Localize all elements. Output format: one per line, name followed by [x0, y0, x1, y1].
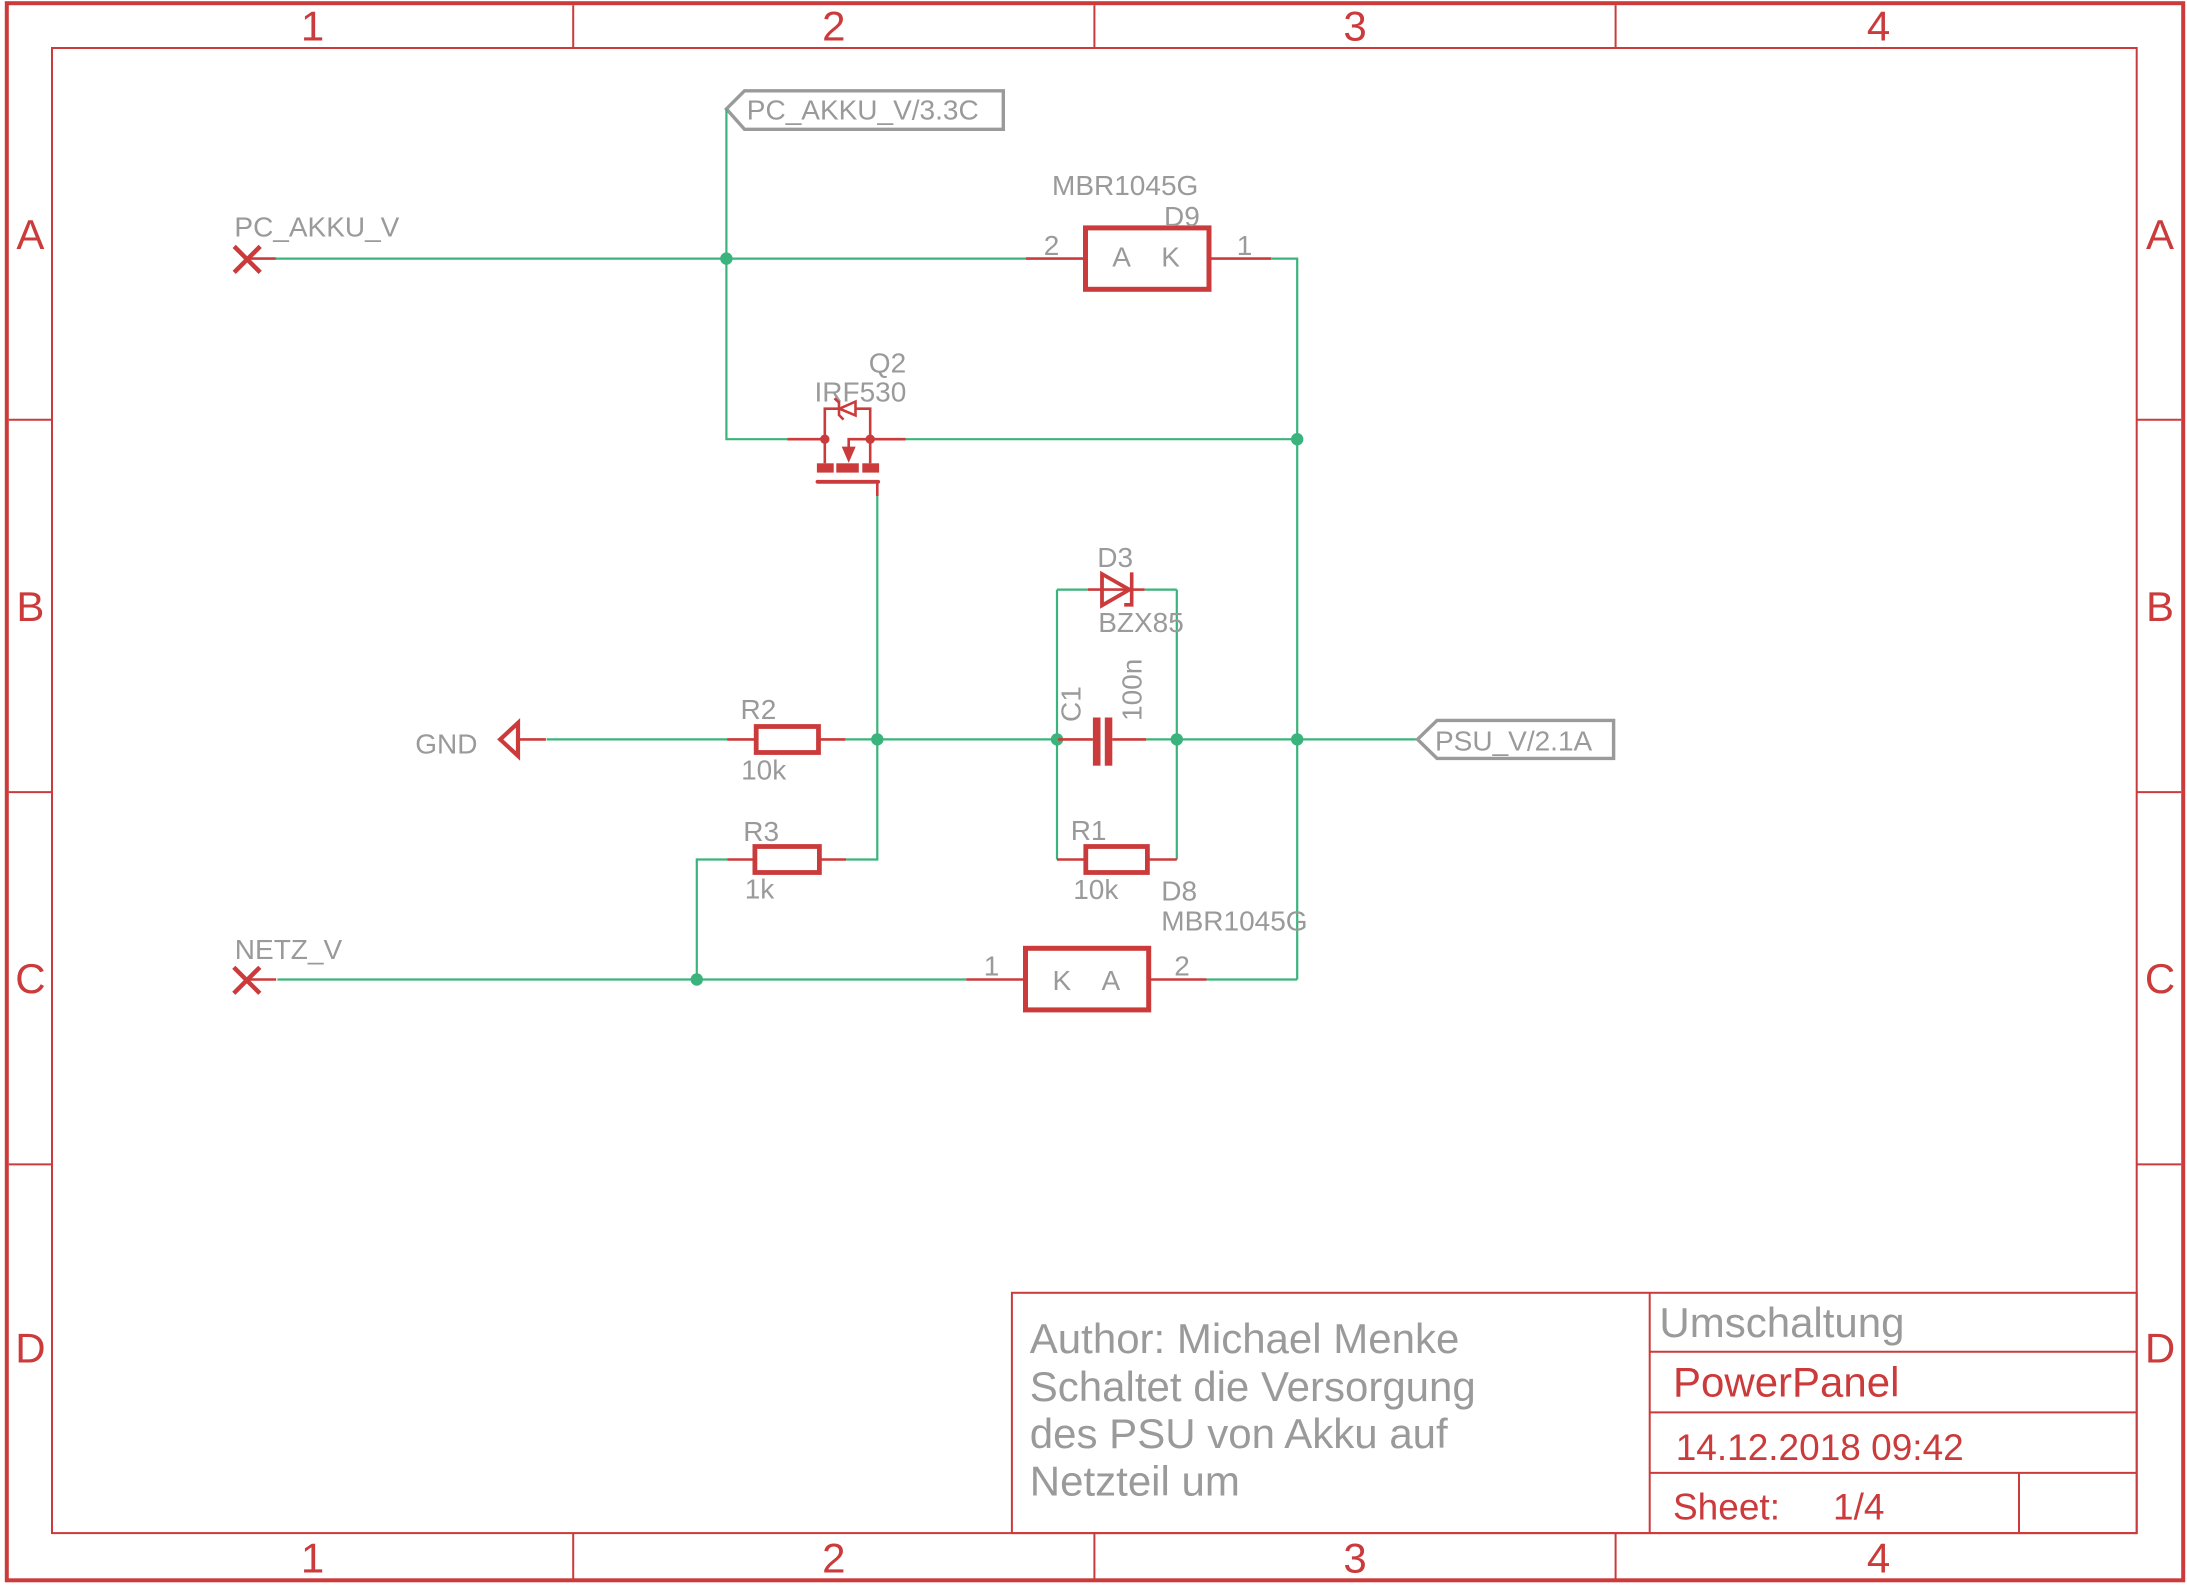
wire gate column down to R3 [846, 739, 877, 859]
capacitor C1 left plate [1093, 718, 1101, 766]
capacitor C1 left pin [1057, 738, 1093, 741]
svg-text:1: 1 [984, 951, 1000, 982]
transistor Q2 drain dot [866, 435, 875, 444]
title block row divider 1 [1650, 1351, 2137, 1353]
svg-text:C: C [2145, 955, 2175, 1002]
transistor Q2 drain pin [870, 438, 905, 441]
svg-text:Netzteil um: Netzteil um [1030, 1457, 1240, 1504]
svg-text:4: 4 [1867, 3, 1890, 50]
node junction right bus at Q2 row [1291, 433, 1303, 445]
transistor Q2 gate lead [876, 482, 879, 496]
frame left row dividers [9, 420, 52, 1165]
diode D9 pin 1 stub [1209, 257, 1271, 260]
transistor Q2 body connection to source [849, 439, 871, 448]
diode D8 pin 2 stub [1149, 978, 1207, 981]
zener D3 cathode bar [1124, 572, 1132, 604]
capacitor C1 right pin [1112, 738, 1146, 741]
wire C1 right to flag [1146, 738, 1417, 740]
svg-text:D9: D9 [1164, 201, 1200, 232]
net flag PSU_V/2.1A [1418, 720, 1614, 758]
net stub X PC_AKKU_V [234, 246, 260, 272]
wire D9 to right bus [1271, 259, 1297, 980]
transistor Q2 body pad [836, 463, 859, 472]
resistor R1 right pin [1147, 858, 1176, 861]
svg-text:1/4: 1/4 [1833, 1487, 1884, 1528]
diode D9 body [1086, 228, 1210, 289]
svg-text:PowerPanel: PowerPanel [1673, 1359, 1899, 1406]
svg-text:C: C [15, 955, 45, 1002]
svg-text:NETZ_V: NETZ_V [235, 934, 343, 965]
svg-text:A: A [1102, 965, 1121, 996]
svg-text:K: K [1053, 965, 1072, 996]
ground arrow [500, 723, 518, 756]
svg-text:R2: R2 [741, 694, 777, 725]
node junction main row center [871, 733, 883, 745]
svg-text:PSU_V/2.1A: PSU_V/2.1A [1435, 725, 1593, 756]
svg-text:D8: D8 [1161, 876, 1197, 907]
wire R2 to center junction [845, 738, 1060, 740]
resistor R2 body [756, 727, 818, 753]
transistor Q2 source riser [823, 439, 826, 463]
title block outline [1012, 1293, 2137, 1533]
svg-text:BZX85: BZX85 [1098, 607, 1184, 638]
diode D8 pin 1 stub [966, 978, 1025, 981]
resistor R1 body [1086, 847, 1148, 873]
wire GND to R2 [547, 738, 728, 740]
svg-text:4: 4 [1867, 1535, 1890, 1582]
svg-text:10k: 10k [741, 754, 787, 785]
transistor Q2 source dot [820, 435, 829, 444]
transistor Q2 body diode loop [825, 409, 870, 440]
node junction PC_AKKU_V [720, 252, 732, 264]
wire D3 row left [1057, 588, 1088, 590]
svg-text:A: A [1112, 241, 1131, 272]
frame bottom column dividers [573, 1533, 1615, 1579]
transistor Q2 source pin [787, 438, 825, 441]
wire R3 to NETZ junction [697, 860, 728, 980]
transistor Q2 body diode triangle [840, 402, 856, 416]
transistor Q2 drain pad [862, 463, 879, 472]
wire D8 to right bus [1207, 978, 1298, 980]
svg-text:1: 1 [301, 1535, 324, 1582]
transistor Q2 bulk arrow [842, 447, 856, 463]
svg-text:MBR1045G: MBR1045G [1052, 170, 1198, 201]
svg-text:14.12.2018 09:42: 14.12.2018 09:42 [1676, 1427, 1964, 1468]
wire PC_AKKU_V row [275, 258, 1026, 260]
frame right row dividers [2137, 420, 2182, 1165]
svg-text:A: A [16, 211, 44, 258]
transistor Q2 drain riser [869, 439, 872, 463]
svg-text:D3: D3 [1097, 542, 1133, 573]
resistor R3 body [755, 847, 820, 873]
transistor Q2 body diode zener cathode [835, 398, 844, 419]
frame top column dividers [573, 5, 1615, 48]
wire NETZ_V row [277, 978, 966, 980]
wire D3 row right [1145, 588, 1177, 590]
svg-text:B: B [16, 583, 44, 630]
svg-text:PC_AKKU_V: PC_AKKU_V [234, 212, 399, 243]
resistor R2 left pin [727, 738, 756, 741]
capacitor C1 right plate [1105, 718, 1113, 766]
svg-text:Author: Michael Menke: Author: Michael Menke [1030, 1315, 1460, 1362]
node junction C1 right [1171, 733, 1183, 745]
zener D3 triangle [1102, 574, 1129, 605]
diode D9 pin 2 stub [1026, 257, 1086, 260]
node junction right bus at main row [1291, 733, 1303, 745]
svg-text:3: 3 [1343, 1535, 1366, 1582]
svg-text:1k: 1k [745, 873, 776, 904]
svg-text:Umschaltung: Umschaltung [1659, 1299, 1904, 1346]
zener D3 left pin [1088, 588, 1130, 591]
svg-text:100n: 100n [1117, 659, 1148, 721]
resistor R1 left pin [1057, 858, 1086, 861]
ground pin stub [518, 738, 546, 741]
svg-text:A: A [2146, 211, 2174, 258]
svg-text:R1: R1 [1071, 815, 1107, 846]
svg-text:des PSU von Akku auf: des PSU von Akku auf [1030, 1410, 1448, 1457]
net flag PC_AKKU_V/3.3C [726, 91, 1003, 130]
title block row divider 2 [1650, 1411, 2137, 1413]
svg-text:D: D [15, 1325, 45, 1372]
svg-text:Q2: Q2 [869, 348, 906, 379]
svg-text:B: B [2146, 583, 2174, 630]
pin stub NETZ_V [247, 978, 276, 981]
resistor R3 right pin [819, 858, 846, 861]
svg-text:C1: C1 [1056, 686, 1087, 722]
node junction C1 left [1051, 733, 1063, 745]
svg-text:MBR1045G: MBR1045G [1161, 906, 1307, 937]
wire flag drop to PC_AKKU_V junction [725, 109, 727, 259]
transistor Q2 source pad [817, 463, 834, 472]
wire PC_AKKU_V junction down to Q2 row [726, 259, 787, 440]
transistor Q2 gate bar [818, 480, 879, 484]
net stub X NETZ_V [234, 967, 260, 993]
svg-text:2: 2 [822, 1535, 845, 1582]
svg-text:1: 1 [1237, 230, 1253, 261]
node junction NETZ R3 [691, 973, 703, 985]
title block vertical divider [1649, 1293, 1651, 1533]
zener D3 right pin [1134, 588, 1145, 591]
diode D8 body [1026, 948, 1149, 1010]
wire D3 branch right vertical [1176, 590, 1178, 860]
title block sheet cell divider [2018, 1473, 2020, 1533]
title block row divider 3 [1650, 1472, 2137, 1474]
svg-text:GND: GND [415, 728, 477, 759]
svg-text:K: K [1161, 241, 1180, 272]
svg-text:PC_AKKU_V/3.3C: PC_AKKU_V/3.3C [747, 94, 979, 125]
wire Q2 drain to right bus [906, 438, 1298, 440]
resistor R2 right pin [819, 738, 846, 741]
svg-text:Sheet:: Sheet: [1673, 1487, 1780, 1528]
svg-text:3: 3 [1343, 3, 1366, 50]
pin stub PC_AKKU_V [247, 257, 276, 260]
svg-text:2: 2 [1174, 951, 1190, 982]
resistor R3 left pin [728, 858, 755, 861]
svg-text:10k: 10k [1073, 874, 1119, 905]
svg-text:R3: R3 [743, 816, 779, 847]
svg-text:2: 2 [822, 3, 845, 50]
wire Q2 gate down to main row [876, 496, 878, 739]
svg-text:1: 1 [301, 3, 324, 50]
wire D3 branch left vertical [1056, 590, 1058, 860]
svg-text:IRF530: IRF530 [815, 377, 907, 408]
svg-text:D: D [2145, 1325, 2175, 1372]
svg-text:2: 2 [1044, 230, 1060, 261]
svg-text:Schaltet die Versorgung: Schaltet die Versorgung [1030, 1363, 1476, 1410]
